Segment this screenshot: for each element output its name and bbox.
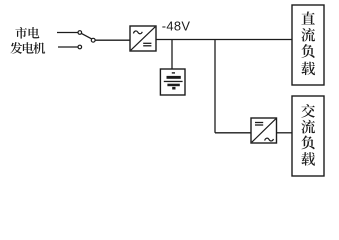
label: generator 发电机 [10, 42, 45, 54]
battery GB symbol plates [164, 72, 183, 89]
battery GB box [160, 69, 185, 95]
switch S1 pole (common) [91, 38, 95, 42]
AC load box [292, 96, 324, 176]
rectifier U1 DC symbol (=) [143, 43, 151, 46]
wire: inverter branch, horizontal to inverter input [215, 132, 251, 134]
label: AC load 交流负载 (vertical) [301, 104, 315, 166]
wire: battery branch from bus [171, 40, 173, 70]
rectifier U1 diagonal divider [131, 27, 155, 50]
DC load box [292, 5, 324, 85]
rectifier U1 AC symbol (~) [133, 31, 142, 34]
inverter U2 diagonal divider [252, 119, 276, 142]
inverter U2 (DC/AC converter) box [251, 118, 277, 143]
label: DC load 直流负载 (vertical) [301, 11, 315, 75]
wire: -48V distribution bus (rectifier output to DC load) [156, 39, 292, 41]
rectifier U1 (AC/DC converter) box [130, 26, 156, 51]
switch S1 contact b (generator side, open) [78, 45, 82, 49]
wire: inverter output to AC load [277, 132, 293, 134]
wire: generator lead to switch contact [58, 46, 78, 48]
svg-text:-48V: -48V [162, 18, 191, 33]
switch S1 contact a (mains side, closed) [78, 31, 82, 35]
inverter U2 DC symbol (=) [255, 123, 263, 126]
wire: mains lead to switch contact [57, 32, 78, 34]
inverter U2 AC symbol (~) [265, 138, 274, 141]
wire: switch pole to rectifier input [95, 39, 130, 41]
wire: inverter branch, vertical drop from bus [214, 40, 216, 133]
switch S1 blade [81, 33, 91, 38]
label: mains supply 市电 [15, 27, 39, 39]
